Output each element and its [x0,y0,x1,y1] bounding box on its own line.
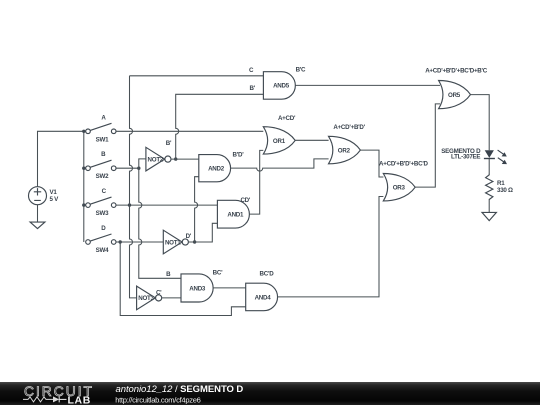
svg-text:LAB: LAB [68,395,91,405]
OR gate OR1 [263,127,295,154]
OR gate OR5 [439,81,471,109]
svg-text:NOT3: NOT3 [138,295,154,302]
svg-text:B': B' [249,85,255,92]
node D' junction [193,240,196,243]
wire NOT3 output to AND3 bottom input [162,297,181,299]
svg-text:5 V: 5 V [50,196,60,203]
NOT gate NOT1 [163,230,191,254]
svg-text:OR2: OR2 [338,147,351,154]
CircuitLab logo [23,384,94,405]
svg-text:A+CD'+B'D': A+CD'+B'D' [333,124,365,131]
switch SW2 [86,151,116,180]
wire D line vertical: node D down to AND4 bottom input [120,242,246,316]
svg-text:330 Ω: 330 Ω [497,187,513,194]
wire V1 bottom to ground [37,205,39,222]
svg-text:SW2: SW2 [96,173,109,180]
LED SEGMENTO D [441,148,507,174]
AND gate AND1 [217,200,249,228]
junction node row C bus [82,203,85,206]
svg-text:R1: R1 [497,180,505,187]
wire row D: SW4 to NOT1 input [116,241,163,243]
wire row B: SW2 to B node [116,167,139,169]
wire NOT2 output to AND2 top input [171,158,199,160]
bus vertical from row A to row D [83,131,85,242]
svg-text:A+CD'+B'D'+BC'D: A+CD'+B'D'+BC'D [379,161,429,168]
node B' junction [174,157,177,160]
ground under R1 [482,212,496,220]
wire R1 to ground [488,199,490,213]
voltage source V1 [29,187,60,205]
junction node row A bus [82,130,85,133]
svg-text:AND1: AND1 [227,212,244,219]
svg-text:B'D': B'D' [233,151,245,158]
svg-text:http://circuitlab.com/cf4pze6: http://circuitlab.com/cf4pze6 [115,395,200,404]
wire AND3 output to AND4 top input [213,287,246,289]
node D junction [119,240,122,243]
svg-text:NOT1: NOT1 [165,239,181,246]
svg-text:B'C: B'C [296,67,306,74]
OR gate OR2 [329,136,361,164]
svg-text:NOT2: NOT2 [148,156,164,163]
wire OR3 output to OR5 bottom input [415,104,440,187]
wire row C: SW3 to AND1 top input [116,204,217,206]
wire D' to AND1 bottom input [195,223,218,242]
svg-text:BC': BC' [213,270,223,277]
wire B line vertical: node B up to NOT2 input; down to AND3 input B, hops rows C,D [139,159,181,278]
wire AND2 output to OR2 bottom input, hop over CD' vertical [231,159,329,171]
wire row A: SW1 to OR1 top input, hops over C line and B' line [116,130,263,132]
footer bar [0,382,540,405]
svg-text:AND4: AND4 [255,295,272,302]
switch SW3 [86,188,116,217]
ground under V1 [30,222,45,229]
wire OR1 output to OR2 top input [295,139,328,141]
svg-text:SW4: SW4 [96,247,109,254]
node C junction [128,203,131,206]
AND gate AND3 [181,274,213,302]
wire D' to AND2 bottom input, hop row C [188,177,198,242]
svg-text:C': C' [156,289,162,296]
svg-text:LTL-307EE: LTL-307EE [451,154,480,161]
svg-text:AND2: AND2 [208,166,225,173]
svg-text:A+CD'+B'D'+BC'D+B'C: A+CD'+B'D'+BC'D+B'C [425,68,488,75]
OR gate OR3 [383,174,415,201]
svg-text:SW1: SW1 [96,136,109,143]
wire AND1 output to OR1 bottom input [249,150,263,214]
wire B' vertical: NOT2 output up to AND5 input B', hop row A [176,94,264,159]
wire OR2 output to OR3 top input [360,150,383,177]
wire OR5 output to LED [471,95,490,151]
svg-text:OR1: OR1 [273,138,286,145]
svg-text:AND5: AND5 [273,83,290,90]
svg-text:D': D' [186,233,192,240]
node B junction [137,167,140,170]
svg-text:OR3: OR3 [393,185,406,192]
wire C line vertical: row C up to AND5 input C, hops rows A,B; down to NOT3 input, hop row D [130,76,264,298]
svg-text:AND3: AND3 [189,286,206,293]
switch SW1 [86,114,116,143]
AND gate AND4 [246,283,278,311]
svg-text:antonio12_12 / SEGMENTO D: antonio12_12 / SEGMENTO D [116,384,244,395]
resistor R1 [486,174,513,200]
NOT gate NOT2 [146,140,172,171]
AND gate AND2 [199,155,231,182]
junction node row B bus [82,167,85,170]
switch SW4 [86,225,116,254]
svg-text:SW3: SW3 [96,210,109,217]
svg-text:OR5: OR5 [448,92,461,99]
wire AND4 output to OR3 bottom input [278,197,384,297]
svg-text:A+CD': A+CD' [278,115,296,122]
wire V1 top to bus [38,131,84,186]
AND gate AND5 [263,72,295,100]
svg-text:BC'D: BC'D [260,270,275,277]
svg-text:CD': CD' [240,197,250,204]
svg-text:V1: V1 [50,189,58,196]
wire AND5 output to OR5 top input [295,84,440,86]
NOT gate NOT3 [137,286,163,310]
svg-text:B': B' [166,140,172,147]
